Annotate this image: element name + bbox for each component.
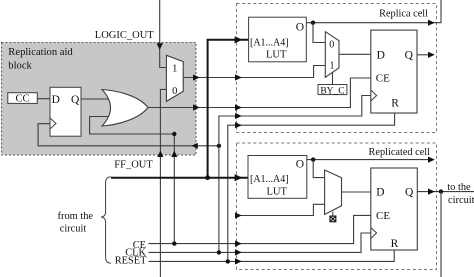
- arrow mux lower input at border: [235, 212, 242, 218]
- arrow up into block x160: [157, 151, 163, 157]
- arrow up into block x174: [171, 151, 177, 157]
- svg-text:D: D: [52, 94, 60, 106]
- wire CE riser: [173, 134, 175, 244]
- replica cell box: [237, 4, 437, 133]
- arrow CLK into replicated box: [235, 249, 242, 255]
- svg-text:Replica cell: Replica cell: [379, 9, 428, 20]
- capacitor-like CC box: [8, 93, 38, 105]
- svg-text:LUT: LUT: [267, 187, 288, 198]
- mux M1 in aid block: [166, 55, 183, 101]
- LUT U1 replica: [249, 17, 307, 62]
- flip-flop FF2 replicated: [371, 168, 418, 250]
- flip-flop FF1 replica: [371, 30, 417, 113]
- svg-text:0: 0: [329, 40, 334, 51]
- arrow FF_OUT into replica LUT: [235, 36, 243, 43]
- replication aid block (grey region): [2, 43, 197, 156]
- wire CLK line to replicated FF clock: [149, 233, 371, 252]
- LUT U2 replicated: [248, 156, 307, 199]
- svg-text:FF_OUT: FF_OUT: [114, 159, 153, 170]
- node junction CE / riser: [172, 241, 176, 245]
- wire replicated mux lower input: [237, 204, 325, 215]
- arrow O line at replica border: [428, 20, 435, 26]
- wire OR output to replica CE: [148, 78, 371, 108]
- wire from bottom edge to mux 0 input: [160, 89, 166, 277]
- svg-text:O: O: [296, 22, 304, 34]
- arrow replicated O at border: [428, 157, 435, 163]
- wire OR bottom input from CE riser: [90, 117, 175, 135]
- wire clock branch to aid FF: [38, 124, 219, 146]
- arrow mux out at replica border: [235, 74, 242, 80]
- arrow replica Q: [428, 52, 435, 58]
- wire replica Q out: [417, 54, 433, 56]
- svg-text:circuit: circuit: [448, 195, 474, 206]
- arrow CE into replicated box: [235, 241, 242, 247]
- arrow RESET into replicated box: [235, 258, 242, 264]
- svg-text:Q: Q: [405, 186, 414, 198]
- arrow FF_OUT into replicated LUT: [235, 174, 243, 181]
- svg-text:[A1...A4]: [A1...A4]: [250, 174, 289, 185]
- BY_C box: [318, 85, 347, 97]
- node junction clock branch / CLK riser: [217, 144, 221, 148]
- mux M2 replica: [325, 32, 339, 78]
- wire LOGIC_OUT into mux 1 input: [160, 0, 167, 68]
- replicated cell box: [237, 143, 437, 270]
- svg-text:[A1...A4]: [A1...A4]: [250, 38, 289, 49]
- svg-text:R: R: [391, 98, 399, 110]
- or-gate G1: [102, 90, 148, 127]
- svg-text:0: 0: [172, 86, 177, 97]
- svg-text:from the: from the: [58, 211, 94, 222]
- mux M3 replicated: [325, 170, 342, 215]
- wire CE line to replicated FF CE: [149, 215, 371, 243]
- wire replicated mux out to D: [342, 191, 371, 193]
- arrow left into block on clock branch: [192, 143, 198, 149]
- node junction to-the-circuit: [439, 189, 443, 193]
- svg-text:CE: CE: [376, 210, 390, 222]
- svg-text:D: D: [377, 49, 385, 61]
- svg-text:Q: Q: [71, 94, 80, 106]
- wire mux select tie-off stub: [332, 212, 334, 217]
- svg-text:CC: CC: [15, 93, 29, 104]
- wire CLK riser to replica FF clock: [219, 96, 371, 253]
- arrow mux out at grey border: [193, 74, 200, 80]
- arrow replicated Q: [428, 189, 435, 195]
- svg-text:Replicated cell: Replicated cell: [369, 147, 431, 158]
- wire replicated Q to the circuit: [417, 191, 474, 193]
- svg-text:Replication aid: Replication aid: [8, 47, 73, 58]
- node junction FF_OUT riser: [205, 175, 210, 180]
- arrow OR out at grey border: [193, 104, 200, 110]
- wire RESET line to replicated FF R: [149, 250, 395, 261]
- svg-text:O: O: [296, 159, 304, 171]
- svg-text:CE: CE: [376, 72, 390, 84]
- wire to-the-circuit down to bottom edge: [440, 192, 442, 277]
- svg-text:LUT: LUT: [266, 50, 287, 61]
- svg-text:1: 1: [172, 64, 177, 75]
- arrow RESET into replica box: [235, 122, 242, 128]
- wire aid mux output to replica mux 1 input: [183, 66, 325, 78]
- svg-text:to the: to the: [447, 182, 471, 193]
- node junction RESET / riser: [226, 259, 230, 263]
- arrow CLK into replica box: [235, 113, 242, 119]
- svg-text:Q: Q: [405, 49, 414, 61]
- svg-text:R: R: [391, 238, 399, 250]
- wire replicated O to mux input: [313, 160, 324, 178]
- brace from the circuit: [101, 177, 111, 263]
- node junction CE riser / OR input: [172, 132, 176, 136]
- svg-text:block: block: [8, 60, 32, 71]
- tie-off box with X: [330, 216, 336, 222]
- svg-text:LOGIC_OUT: LOGIC_OUT: [95, 30, 154, 41]
- node junction CLK / riser: [217, 250, 221, 254]
- wire replica O top line exiting image top: [306, 0, 441, 23]
- arrow LOGIC_OUT entering block: [157, 43, 163, 50]
- svg-text:RESET: RESET: [115, 256, 147, 267]
- wire FF_OUT thick net: [111, 40, 249, 178]
- wire Q to OR top input: [81, 98, 112, 100]
- svg-text:1: 1: [330, 61, 335, 72]
- wire CC to D: [37, 98, 50, 100]
- flip-flop aid FF: [50, 87, 81, 136]
- wire replicated O line: [307, 159, 433, 161]
- svg-text:BY_C: BY_C: [320, 86, 344, 96]
- node junction O top: [311, 21, 315, 25]
- wire BY_C select: [332, 73, 334, 85]
- wire replica mux out to D: [339, 53, 371, 55]
- arrow OR out at replica border: [235, 104, 242, 110]
- wire replica O to mux 0 input: [313, 23, 325, 43]
- node junction O bottom: [311, 157, 315, 161]
- wire RESET riser to replica FF R: [228, 113, 395, 261]
- svg-text:circuit: circuit: [60, 224, 87, 235]
- svg-text:D: D: [376, 186, 384, 198]
